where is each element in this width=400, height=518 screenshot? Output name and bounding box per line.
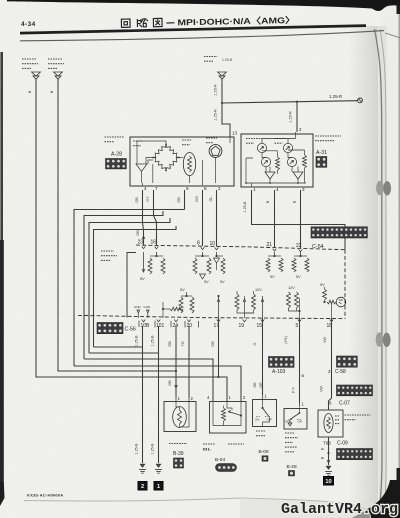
ecu dashed top boundary (136, 245, 345, 250)
connector icon B-28 (289, 471, 295, 476)
connector icon B-04 oval (216, 464, 237, 472)
wire 1.25-R vertical from relay (221, 79, 223, 103)
crank angle sensor label right (315, 136, 341, 141)
ecu dashed bottom boundary (78, 315, 345, 318)
wire 1.25-B ground A (142, 326, 144, 463)
opamp circle in ecu (336, 297, 346, 307)
wire B from relay connector (35, 79, 37, 347)
connector C-58 grid (337, 356, 358, 367)
crank sensor label inside (246, 139, 262, 144)
connector C-07 grid (337, 385, 373, 396)
nested horizontal wire h4 (94, 226, 177, 347)
wire YG ecu pin5 to ps switch (299, 318, 301, 403)
combination meter label (345, 415, 371, 420)
throttle sensor label (203, 444, 215, 449)
nested horizontal wire h2 (84, 211, 163, 359)
wire ecu pin17 down to junction (218, 318, 220, 377)
air flow sensor label A-28 (105, 137, 125, 142)
water temp sensor box B-39 (164, 402, 196, 432)
ecu internal resistors pin16 (156, 252, 158, 256)
wire B from ecu connector (57, 79, 59, 353)
ecu mid wire pin17 (218, 296, 220, 318)
connector half engine control relay (32, 72, 41, 79)
connector icon A-28 (106, 159, 127, 169)
watermark GalantVR4.org (281, 501, 398, 518)
ground symbol A (139, 464, 146, 473)
ground bolt 1 (154, 482, 163, 491)
LED tdc (283, 143, 292, 152)
wire crank pin4 to ecu pin21 (274, 190, 276, 248)
ecu internal 5V regulator pin23 (143, 252, 145, 272)
air flow sensor box A-28 (130, 137, 234, 186)
idle switch box B-08 (253, 400, 277, 427)
idle switch contacts (262, 400, 264, 409)
terminal ring end of rail (358, 98, 363, 103)
ecu dashed right boundary (344, 250, 346, 319)
connector C-09 grid (337, 449, 373, 460)
thermistor oval B-39 (173, 407, 187, 428)
amp triangle tdc (293, 172, 303, 179)
resistor crank internal (276, 157, 280, 170)
connector engine control relay label (22, 59, 38, 68)
phototransistor tdc (287, 157, 296, 166)
wire crank pin3 to ecu pin22 (300, 190, 302, 248)
ground symbol B (155, 464, 162, 473)
page curvature shading near gutter (348, 26, 378, 518)
connector half engine relay (218, 72, 227, 79)
barometric sensor label (133, 141, 142, 146)
resistor tdc internal (303, 155, 307, 168)
page top crease line (20, 31, 384, 41)
wire G ecu pin15 to idle switch (262, 296, 264, 318)
wire B crank pin1 1.25-B (252, 190, 346, 250)
ground bolt 10 (324, 477, 334, 486)
left black scan edge (0, 52, 3, 498)
nested horizontal wire h3 (89, 218, 170, 353)
air flow sensor element circle (209, 145, 222, 158)
title group with slight scan tilt (121, 15, 295, 28)
binder ring upper (376, 181, 384, 195)
connector icon B-39 (174, 458, 184, 468)
TDC sensor label inside (275, 139, 287, 144)
air flow sensor element label (206, 138, 217, 143)
wire GB pin6 nested route (184, 190, 186, 210)
connector engine relay label (204, 57, 217, 62)
title em dash (166, 22, 174, 24)
phototransistor crank (261, 157, 270, 166)
right scan edge dark line (398, 10, 400, 480)
wire 1.25-B ground B (158, 326, 160, 463)
wire bundle bend h y359 to throttle pin4 (84, 359, 213, 401)
top black scan strip (7, 0, 400, 11)
connector C-54 grid (311, 227, 367, 238)
ecu internal resistors pin10 (216, 252, 218, 256)
A-31 pins (250, 186, 254, 188)
c-56 pin separator ticks (139, 321, 199, 328)
connector half engine control unit (54, 72, 63, 79)
op-amp triangle in A-28 (136, 164, 147, 172)
wire 1.25-R horizontal rail (222, 101, 358, 103)
node junction 1.25-R rail (221, 102, 223, 104)
intake air temp thermistor oval (183, 153, 195, 176)
idle switch label (256, 431, 266, 436)
wire bundle bend h y377 to throttle pin1 (36, 347, 227, 401)
ecu internal resistors pin22 (300, 252, 302, 256)
gutter shading band (379, 26, 387, 518)
wire GB ecu pin24 to water temp pin1 (175, 326, 177, 397)
bottom right black corner (352, 480, 400, 518)
title underline bar (20, 24, 366, 34)
wire bundle bend h y366 to throttle pin2 (74, 366, 241, 401)
ground bolt 2 (138, 482, 147, 491)
LED crank (257, 143, 266, 152)
wire B meter to ground (328, 437, 330, 465)
wire 1.25-R down to A-31 pin 2 (296, 102, 298, 132)
combination meter box (318, 410, 343, 437)
wire 1.25-R down to A-28 pin 13 (222, 103, 230, 137)
gutter left line (375, 29, 383, 518)
throttle internal potentiometer (222, 408, 226, 421)
A-28 pins (141, 185, 145, 187)
binder ring lower (376, 332, 384, 346)
bridge circuit barometric sensor (166, 145, 179, 158)
pin chevrons under dashed line (142, 320, 146, 322)
wire pin13 internal (229, 137, 231, 143)
gutter right line (380, 29, 386, 518)
intake air temp sensor label (182, 140, 191, 145)
wire GB pin4 to ecu pin23 (143, 190, 144, 245)
connector icon B-08 (262, 456, 268, 461)
water temp sensor label (169, 443, 187, 445)
ps switch contacts (299, 409, 301, 414)
node junction to crank sensor (296, 101, 298, 103)
fuel gauge oval in meter (324, 414, 333, 433)
ecu internal resistors pin21 (274, 252, 276, 256)
facing page right of gutter (383, 0, 400, 518)
wire bundle bend h y371 to water temp (58, 353, 176, 371)
connector C-56 grid (97, 323, 123, 334)
power steering label (285, 433, 298, 452)
ecu box solid left part (127, 253, 136, 318)
facing page top edge curve (385, 33, 400, 38)
ecu horizontal resistor (170, 307, 183, 311)
bottom page edge line (24, 498, 371, 518)
ecu label engine control unit (101, 251, 117, 260)
ecu internal resistors pin8 (202, 252, 204, 256)
pin chevrons under ecu top dashed line (142, 246, 146, 248)
throttle position sensor box B-04 (210, 402, 247, 434)
wire YG ecu pin20 to water temp pin2 (188, 326, 190, 397)
wire bundle bend to ground A (94, 346, 143, 348)
wire GL pin2 to ecu pin10 (216, 190, 218, 246)
wire GO pin8 to ecu pin8 (202, 190, 204, 246)
amp triangle crank (265, 172, 275, 179)
connector A-103 grid (269, 357, 295, 368)
nested horizontal wire h1 (74, 210, 185, 367)
power steering switch box B-28 (284, 409, 307, 430)
title kanji kairozu hand-drawn (121, 18, 162, 27)
wire VW ecu pin18 to meter (329, 318, 332, 410)
ground symbol meter (325, 466, 332, 475)
internal wires A-31 (246, 132, 306, 183)
crank angle and TDC sensor box A-31 (241, 134, 313, 187)
wires bridge connections (137, 141, 166, 164)
connector icon A-31 (316, 157, 327, 168)
wire GY pin7 to ecu pin16 (154, 190, 157, 245)
connector engine control unit label (48, 59, 64, 68)
wire bundle bend to ground B (89, 352, 159, 354)
